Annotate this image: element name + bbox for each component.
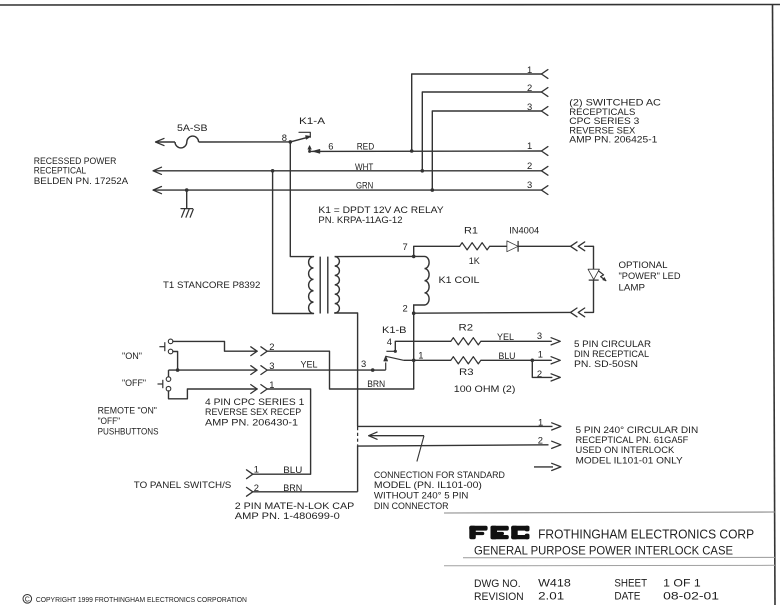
svg-text:IN4004: IN4004 <box>509 224 539 235</box>
wire secondary bottom <box>335 313 358 426</box>
wire R2 to DIN3 <box>481 340 552 342</box>
svg-text:7: 7 <box>403 241 408 252</box>
svg-text:GENERAL PURPOSE POWER INTERLOC: GENERAL PURPOSE POWER INTERLOCK CASE <box>474 544 733 558</box>
svg-text:R3: R3 <box>459 366 474 377</box>
arrow up to K1-B pivot <box>385 363 387 370</box>
svg-text:BELDEN PN. 17252A: BELDEN PN. 17252A <box>34 175 129 186</box>
LED light arrow <box>599 271 606 281</box>
svg-text:R1: R1 <box>464 224 478 235</box>
svg-text:PUSHBUTTONS: PUSHBUTTONS <box>98 425 159 436</box>
arrow left GRN line <box>153 187 162 194</box>
wire pin1 to BLU drop <box>267 389 310 474</box>
logo FEC letter C <box>511 526 518 539</box>
wire ON top to pin2 <box>173 341 257 351</box>
node WHT to primary <box>271 169 275 173</box>
logo FEC letter E <box>491 526 498 539</box>
svg-text:COPYRIGHT 1999 FROTHINGHAM ELE: COPYRIGHT 1999 FROTHINGHAM ELECTRONICS C… <box>36 597 247 604</box>
svg-text:C: C <box>25 597 30 604</box>
relay contact K1-A arrowhead <box>306 136 311 140</box>
svg-text:6: 6 <box>328 140 333 151</box>
wire OFF top up <box>168 370 170 377</box>
wire GRN <box>153 189 541 191</box>
svg-text:AMP PN. 206430-1: AMP PN. 206430-1 <box>205 416 298 427</box>
node GRN branch <box>431 188 435 192</box>
svg-text:3: 3 <box>527 101 532 112</box>
arrow right 240DIN pin2 <box>552 441 561 448</box>
node BLU branch <box>531 359 535 363</box>
svg-text:K1-A: K1-A <box>299 115 326 126</box>
svg-text:100 OHM (2): 100 OHM (2) <box>454 383 516 394</box>
svg-text:BRN: BRN <box>283 482 302 493</box>
pushbutton OFF <box>166 377 171 382</box>
svg-text:LAMP: LAMP <box>619 281 646 292</box>
pushbutton ON <box>168 339 173 344</box>
svg-text:R2: R2 <box>459 322 474 333</box>
svg-text:5A-SB: 5A-SB <box>177 122 208 133</box>
wire coil pin2 down <box>413 313 415 389</box>
svg-text:REVISION: REVISION <box>474 591 524 603</box>
wire pin3 YEL <box>169 369 258 371</box>
title block rule 2 <box>463 556 775 558</box>
wire RED branch up <box>412 74 542 151</box>
node K1-B BRN junction <box>412 359 416 363</box>
svg-text:OPTIONAL: OPTIONAL <box>619 259 668 270</box>
wire WHT <box>153 170 541 172</box>
svg-text:1: 1 <box>254 464 259 475</box>
svg-text:SHEET: SHEET <box>614 578 647 590</box>
svg-text:3: 3 <box>527 179 532 190</box>
svg-text:2.01: 2.01 <box>538 591 564 603</box>
arrow right DIN pin 3 <box>551 338 560 345</box>
svg-text:1K: 1K <box>469 255 481 266</box>
resistor R2 <box>451 338 481 345</box>
connector pin 1 mid <box>541 147 548 156</box>
svg-text:1: 1 <box>538 349 543 360</box>
node RED branch <box>410 149 414 153</box>
svg-text:4: 4 <box>387 336 392 347</box>
svg-text:WHT: WHT <box>355 161 374 172</box>
svg-text:2: 2 <box>537 368 542 379</box>
connector pin 3 top <box>541 107 548 116</box>
svg-text:08-02-01: 08-02-01 <box>663 591 719 603</box>
wire pin2 to BRN <box>267 351 414 389</box>
arrow left callout <box>369 432 378 439</box>
svg-text:W418: W418 <box>538 578 571 590</box>
connector pin 1 CPC <box>251 385 257 394</box>
svg-text:YEL: YEL <box>301 358 318 369</box>
svg-text:3: 3 <box>361 358 366 369</box>
wire OFF bottom <box>169 389 258 399</box>
logo FEC letter F <box>469 526 476 539</box>
node pin 4 contact <box>394 350 397 353</box>
svg-text:AMP PN. 206425-1: AMP PN. 206425-1 <box>569 134 657 145</box>
wire ON bottom branch <box>173 352 178 371</box>
transformer T1 core <box>319 257 321 314</box>
wire fuse to K1-A <box>199 141 291 143</box>
wire WHT branch up <box>422 92 541 171</box>
node ON bottom junction <box>176 368 180 372</box>
svg-text:2: 2 <box>527 82 532 93</box>
wire K1-A to primary top <box>290 142 313 257</box>
svg-text:FROTHINGHAM ELECTRONICS CORP: FROTHINGHAM ELECTRONICS CORP <box>538 527 754 541</box>
connector pin 3 CPC <box>251 366 257 375</box>
wire secondary drop lower <box>357 445 359 491</box>
svg-text:K1 COIL: K1 COIL <box>439 274 480 285</box>
svg-text:2: 2 <box>527 160 532 171</box>
svg-text:PN. SD-50SN: PN. SD-50SN <box>574 358 638 369</box>
wire RED <box>310 150 542 152</box>
arrow left WHT line <box>153 167 162 174</box>
wire pin4 up to R2 <box>395 341 451 351</box>
wire 240DIN pin1 <box>358 425 553 427</box>
svg-text:1: 1 <box>527 140 532 151</box>
node GRN ground junction <box>185 188 189 192</box>
page right border <box>773 5 776 605</box>
connector pin 3 mid <box>541 186 548 195</box>
wire hot to fuse <box>156 141 176 143</box>
title block rule 3 <box>444 564 775 567</box>
arrow right 240DIN pin1 <box>552 423 561 430</box>
svg-text:K1-B: K1-B <box>382 324 407 335</box>
node coil pin 7 <box>412 255 416 259</box>
node coil pin 2 <box>412 311 416 315</box>
wire GRN branch up <box>432 111 541 190</box>
svg-text:AMP PN. 1-480699-0: AMP PN. 1-480699-0 <box>235 510 340 521</box>
relay contact K1-B fixed bar <box>386 350 395 352</box>
wire R1 to diode <box>490 245 507 247</box>
wire 240DIN pin2 <box>358 445 549 446</box>
svg-text:1: 1 <box>538 416 543 427</box>
transformer T1 primary winding <box>309 257 314 314</box>
svg-text:1: 1 <box>527 64 532 75</box>
callout leader line <box>417 436 424 462</box>
resistor R3 <box>451 357 481 364</box>
connector pin 1 panel <box>247 470 253 479</box>
node YEL end <box>371 368 375 372</box>
page top border <box>0 4 780 7</box>
relay contact K1-A armature <box>290 137 309 142</box>
svg-text:"ON": "ON" <box>122 350 142 361</box>
arrow right DIN pin 2 <box>551 374 560 381</box>
resistor R1 <box>460 243 490 250</box>
svg-text:DIN CONNECTOR: DIN CONNECTOR <box>374 500 449 511</box>
fuse F1 5A-SB <box>175 136 199 148</box>
pin 6 tick with up arrow <box>309 148 311 151</box>
LED lamp <box>588 269 599 279</box>
relay contact K1-B armature <box>386 356 404 360</box>
svg-text:TO PANEL SWITCH/S: TO PANEL SWITCH/S <box>134 479 232 490</box>
svg-text:1: 1 <box>418 349 423 360</box>
arrow right 240DIN spare <box>534 466 553 468</box>
wire BLU branch down <box>532 360 552 377</box>
svg-text:DWG NO.: DWG NO. <box>474 578 521 590</box>
svg-text:CONNECTION FOR STANDARD: CONNECTION FOR STANDARD <box>374 469 505 480</box>
wire coil pin7 up to R1 <box>414 246 460 256</box>
arrow left on RED wire <box>313 149 320 153</box>
svg-text:BLU: BLU <box>283 464 302 475</box>
wire K1-B to R3 <box>404 359 451 361</box>
wire GRN to ground <box>186 190 188 209</box>
connector pin 2 top <box>541 88 548 97</box>
svg-text:BLU: BLU <box>499 350 516 361</box>
svg-text:MODEL IL101-01 ONLY: MODEL IL101-01 ONLY <box>576 454 684 465</box>
svg-text:8: 8 <box>282 132 287 143</box>
wire R3 to DIN1 <box>481 359 552 361</box>
wire diode to connector <box>518 245 570 247</box>
arrow right DIN pin 1 <box>551 357 560 364</box>
relay contact K1-A fixed contact <box>299 132 310 137</box>
connector pin 2 panel <box>247 487 253 496</box>
connector pin 2 mid <box>541 166 548 175</box>
copyright symbol <box>23 595 32 604</box>
wire BRN panel <box>253 491 358 493</box>
connector pin 2 CPC <box>251 347 257 356</box>
svg-text:RED: RED <box>357 140 375 151</box>
svg-text:2: 2 <box>538 434 543 445</box>
connector pin 1 top <box>541 70 548 79</box>
wire BLU panel <box>253 473 311 475</box>
svg-text:PN. KRPA-11AG-12: PN. KRPA-11AG-12 <box>318 214 402 225</box>
node WHT branch <box>421 169 425 173</box>
svg-text:T1 STANCORE P8392: T1 STANCORE P8392 <box>163 279 260 290</box>
node pin 8 junction <box>289 140 293 144</box>
title block top rule <box>444 512 775 513</box>
wire YEL dot to arrow <box>373 369 386 371</box>
wire WHT to primary bottom <box>273 171 314 314</box>
wire dashed standard model <box>357 427 359 445</box>
connector chevrons to LED plus <box>571 242 578 251</box>
svg-text:"OFF": "OFF" <box>122 377 146 388</box>
svg-text:2: 2 <box>403 303 408 314</box>
node pin 6 <box>308 150 311 153</box>
wire YEL to K1-B <box>267 369 373 371</box>
arrow left hot line <box>156 138 165 145</box>
svg-text:GRN: GRN <box>356 180 373 191</box>
svg-text:DATE: DATE <box>614 591 640 603</box>
svg-text:3: 3 <box>537 330 542 341</box>
relay coil K1 <box>414 256 429 313</box>
wire secondary top to coil <box>335 255 414 257</box>
wire LED return to coil pin 2 <box>414 311 571 314</box>
wire to LED top <box>585 246 594 269</box>
ground <box>181 208 193 210</box>
svg-text:"POWER" LED: "POWER" LED <box>619 270 681 281</box>
connector chevrons LED return <box>571 308 578 317</box>
transformer T1 secondary winding <box>335 257 340 313</box>
svg-text:BRN: BRN <box>367 378 385 389</box>
svg-text:YEL: YEL <box>497 331 514 342</box>
svg-text:1 OF 1: 1 OF 1 <box>663 578 701 590</box>
diode D1 IN4004 <box>507 241 518 252</box>
wire LED bottom <box>585 280 594 312</box>
